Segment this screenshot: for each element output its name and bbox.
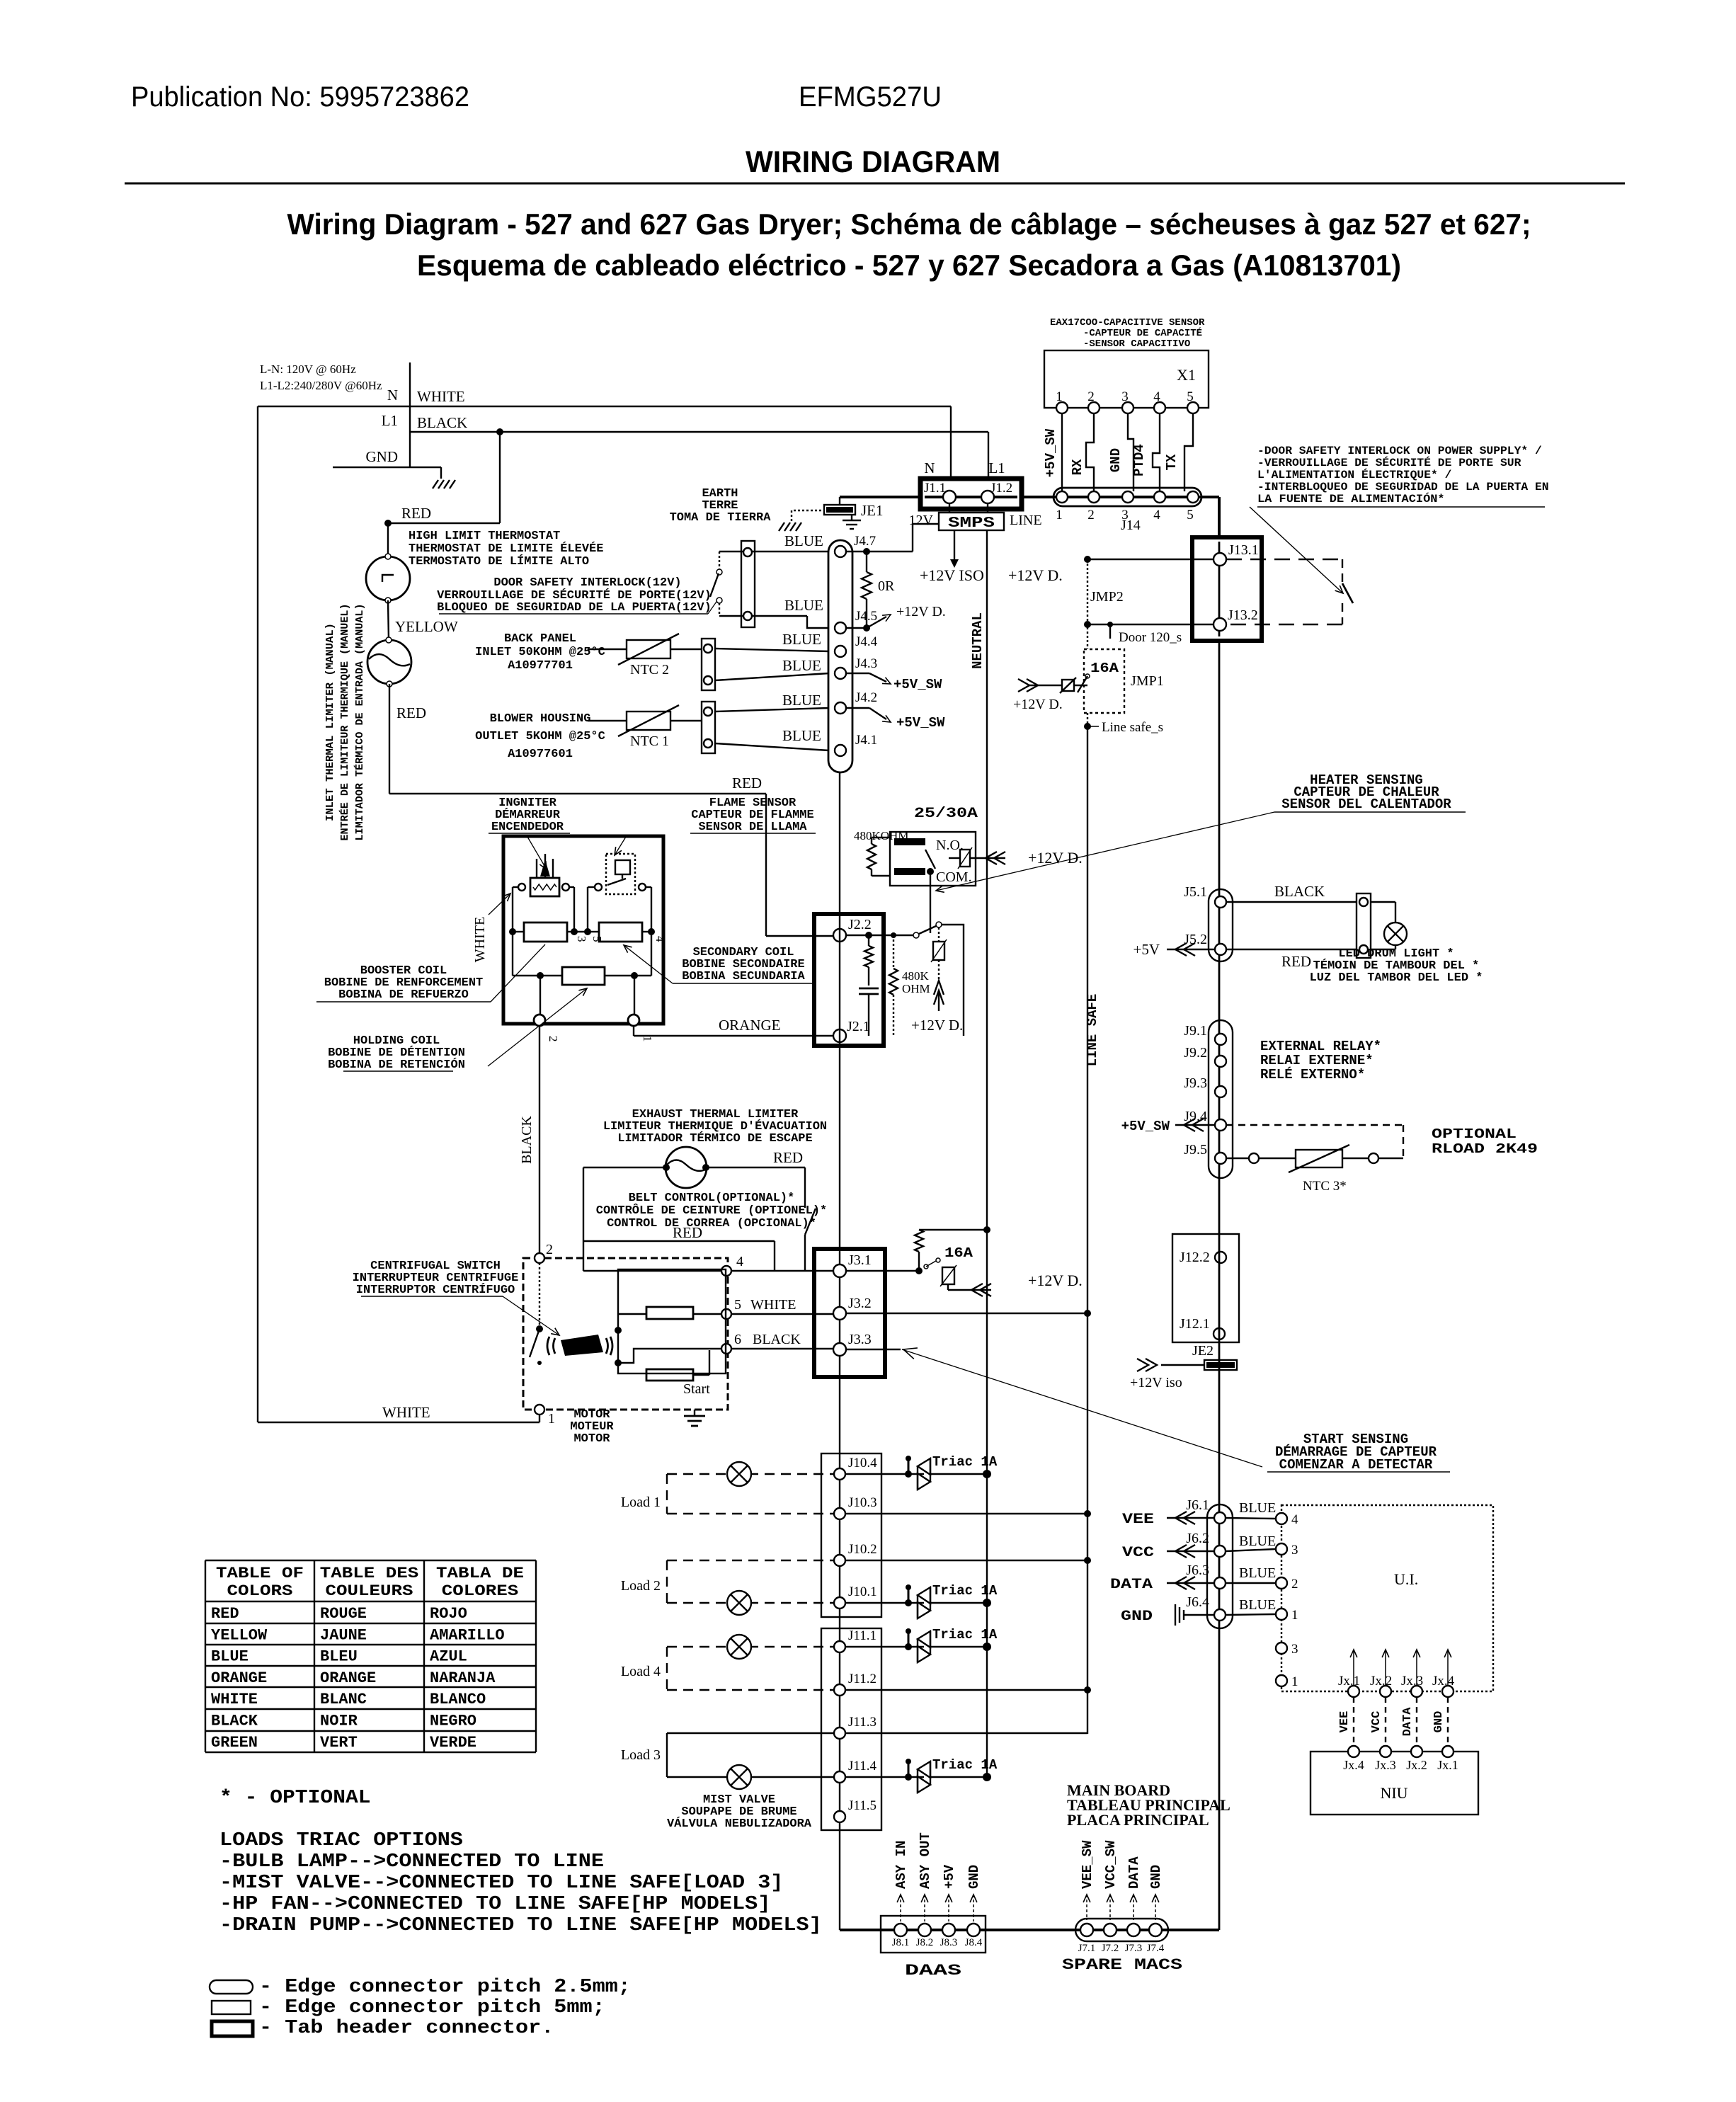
svg-text:NIU: NIU [1380, 1784, 1407, 1802]
svg-text:3: 3 [1291, 1543, 1298, 1558]
svg-text:WIRING DIAGRAM: WIRING DIAGRAM [746, 145, 1000, 179]
svg-text:NOIR: NOIR [320, 1713, 358, 1730]
relay COM contact [894, 868, 925, 875]
flame sensor element [606, 854, 635, 894]
svg-text:1: 1 [548, 1411, 555, 1427]
svg-text:BLACK: BLACK [417, 414, 467, 431]
svg-text:Line safe_s: Line safe_s [1102, 720, 1163, 735]
NTC1 edge connector [702, 702, 715, 753]
svg-text:2: 2 [1291, 1577, 1298, 1592]
svg-text:COLORES: COLORES [442, 1582, 519, 1600]
svg-text:+12V D.: +12V D. [1008, 566, 1063, 584]
svg-text:1: 1 [1056, 508, 1063, 522]
svg-text:Load 2: Load 2 [621, 1578, 661, 1594]
svg-text:BLUE: BLUE [1239, 1500, 1276, 1516]
svg-text:J8.2: J8.2 [916, 1937, 934, 1948]
wire +5V arrow at J5.2 [1167, 949, 1215, 950]
svg-text:PLACA PRINCIPAL: PLACA PRINCIPAL [1067, 1811, 1209, 1829]
svg-text:BLUE: BLUE [784, 597, 823, 614]
net Door 120_s tap [1107, 622, 1113, 627]
svg-text:BLUE: BLUE [1239, 1533, 1276, 1549]
start winding [646, 1369, 693, 1381]
thermistor NTC3 [1226, 1158, 1249, 1159]
fuse 16A JMP1 box [1084, 649, 1124, 713]
fuse body J3.1 [942, 1267, 954, 1284]
title underline rule [125, 183, 1625, 185]
svg-text:4: 4 [653, 936, 667, 942]
svg-text:JAUNE: JAUNE [320, 1626, 367, 1644]
svg-text:Jx.2: Jx.2 [1370, 1674, 1392, 1689]
motor pin 1 [535, 1405, 544, 1415]
svg-text:VEE_SW: VEE_SW [1080, 1840, 1095, 1889]
svg-text:VERDE: VERDE [430, 1734, 476, 1752]
svg-text:Jx.4: Jx.4 [1343, 1758, 1364, 1772]
svg-text:Jx.1: Jx.1 [1437, 1758, 1458, 1772]
motor ground [694, 1410, 695, 1416]
svg-text:BLOWER HOUSING: BLOWER HOUSING [490, 712, 591, 726]
svg-text:J4.3: J4.3 [855, 656, 877, 671]
svg-text:VCC_SW: VCC_SW [1103, 1840, 1119, 1889]
svg-text:CONTROL DE CORREA (OPCIONAL)*: CONTROL DE CORREA (OPCIONAL)* [607, 1217, 816, 1230]
UI left pins [1276, 1513, 1287, 1524]
svg-text:Publication No: 5995723862: Publication No: 5995723862 [131, 81, 469, 113]
igniter pointer [527, 837, 547, 869]
resistor 0R [863, 548, 870, 555]
relay 25/30A box [890, 832, 976, 886]
svg-text:J3.1: J3.1 [848, 1252, 872, 1268]
wire J1 to J14 line bus [1022, 496, 1219, 498]
svg-text:GND: GND [1121, 1609, 1153, 1625]
wire BLUE interlock lower [719, 615, 807, 617]
door interlock edge connector [741, 541, 755, 627]
svg-text:J10.2: J10.2 [848, 1542, 877, 1557]
wire earth to JE1 [792, 510, 824, 521]
svg-text:NEGRO: NEGRO [430, 1713, 476, 1730]
wire ORANGE assembly to J2.1 [633, 1026, 634, 1036]
svg-text:GND: GND [1108, 448, 1124, 472]
wire J3.2 to line safe [846, 1313, 1087, 1314]
main winding [646, 1307, 693, 1319]
svg-text:YELLOW: YELLOW [395, 618, 458, 635]
svg-text:TÉMOIN DE TAMBOUR DEL *: TÉMOIN DE TAMBOUR DEL * [1313, 959, 1480, 973]
svg-text:NTC 2: NTC 2 [630, 662, 669, 678]
svg-text:L1-L2:240/280V @60Hz: L1-L2:240/280V @60Hz [260, 379, 382, 392]
motor winding block [618, 1269, 726, 1373]
svg-text:2: 2 [1087, 508, 1095, 522]
wire red to J3.1 [583, 1270, 833, 1272]
fuse 16A at J3.1 [846, 1270, 919, 1272]
svg-text:SENSOR DE LLAMA: SENSOR DE LLAMA [698, 821, 807, 834]
svg-text:BOBINA DE RETENCIÓN: BOBINA DE RETENCIÓN [328, 1058, 465, 1072]
svg-text:-INTERBLOQUEO DE SEGURIDAD DE: -INTERBLOQUEO DE SEGURIDAD DE LA PUERTA … [1257, 481, 1549, 493]
svg-text:AZUL: AZUL [430, 1648, 467, 1666]
wire BLUE NTC1 to J4.1 [715, 743, 829, 750]
svg-text:TX: TX [1164, 454, 1180, 470]
motor pin 2 [535, 1253, 544, 1263]
svg-text:16A: 16A [944, 1245, 973, 1261]
svg-text:J8.4: J8.4 [965, 1937, 983, 1948]
wire BLUE NTC2 to J4.4 [715, 649, 829, 651]
svg-text:+12V D.: +12V D. [911, 1017, 963, 1034]
wire J13.1 to line-safe node [1084, 556, 1091, 563]
svg-text:J4.1: J4.1 [855, 733, 877, 748]
svg-text:Load 1: Load 1 [621, 1495, 661, 1510]
load 2 lamp loop [667, 1560, 833, 1561]
svg-text:BLUE: BLUE [1239, 1597, 1276, 1613]
connector SPARE MACS [1075, 1919, 1168, 1941]
wires X1 to J14 [1061, 413, 1063, 491]
svg-text:Jx.4: Jx.4 [1432, 1674, 1455, 1689]
wire LINE SAFE vertical bus [1087, 726, 1088, 1734]
wires UI to NIU [1353, 1697, 1354, 1746]
exhaust thermal limiter [666, 1147, 707, 1188]
thermistor NTC2 [627, 640, 670, 658]
triac J10.4 [846, 1473, 924, 1475]
svg-text:- Tab header connector.: - Tab header connector. [259, 2018, 554, 2039]
igniter lead left [518, 884, 525, 891]
svg-text:INLET THERMAL LIMITER (MANUAL): INLET THERMAL LIMITER (MANUAL) [324, 623, 336, 821]
svg-text:Wiring Diagram - 527 and 627 G: Wiring Diagram - 527 and 627 Gas Dryer; … [287, 207, 1531, 241]
svg-text:LINE: LINE [1010, 513, 1042, 528]
relay blade [925, 850, 935, 869]
svg-text:DATA: DATA [1401, 1707, 1415, 1737]
svg-text:J11.2: J11.2 [848, 1672, 876, 1686]
svg-text:L'ALIMENTATION ÉLECTRIQUE* /: L'ALIMENTATION ÉLECTRIQUE* / [1257, 468, 1451, 481]
triac J11.1 [846, 1646, 924, 1647]
wire black to red drop [499, 432, 501, 523]
svg-text:PTD4: PTD4 [1131, 444, 1147, 476]
svg-text:ASY IN: ASY IN [893, 1841, 909, 1889]
connector J11 [821, 1628, 881, 1830]
ground symbol power entry [433, 480, 438, 489]
wire J4.2 +5V_SW arrow [846, 707, 869, 709]
svg-text:RLOAD 2K49: RLOAD 2K49 [1432, 1141, 1538, 1157]
wire thermostat to limiter [388, 600, 389, 640]
svg-text:16A: 16A [1090, 661, 1119, 676]
wire spark loop [942, 925, 964, 1036]
svg-text:ENCENDEDOR: ENCENDEDOR [491, 821, 564, 834]
motor internal switch [539, 1263, 540, 1327]
high limit thermostat [366, 556, 410, 600]
svg-text:J10.4: J10.4 [848, 1456, 877, 1470]
J2 internal RC [846, 935, 913, 936]
wire BLUE NTC1 to J4.2 [715, 708, 829, 712]
svg-text:RED: RED [673, 1224, 702, 1241]
svg-text:J11.4: J11.4 [848, 1759, 876, 1773]
inlet thermal limiter (manual) [367, 640, 411, 684]
svg-text:BELT CONTROL(OPTIONAL)*: BELT CONTROL(OPTIONAL)* [629, 1192, 795, 1205]
svg-text:HIGH LIMIT THERMOSTAT: HIGH LIMIT THERMOSTAT [409, 530, 560, 543]
holding coil [513, 975, 562, 976]
belt control switch [804, 1167, 806, 1208]
NTC2 edge connector [702, 639, 715, 690]
start sensing pointer [902, 1349, 1262, 1467]
svg-text:Jx.2: Jx.2 [1406, 1758, 1427, 1772]
svg-text:J8.3: J8.3 [940, 1937, 958, 1948]
triac J10.1 [846, 1602, 924, 1604]
flame sensor leads [595, 884, 602, 891]
svg-text:VERROUILLAGE DE SÉCURITÉ DE PO: VERROUILLAGE DE SÉCURITÉ DE PORTE(12V) [437, 588, 712, 602]
wire relay COM to J2.2 switch [930, 872, 931, 933]
svg-text:J10.1: J10.1 [848, 1584, 877, 1599]
svg-text:GND: GND [366, 448, 399, 465]
wire WHITE to motor pin1 [258, 1422, 539, 1423]
svg-text:J8.1: J8.1 [892, 1937, 910, 1948]
wire J10.2 to line safe [846, 1560, 1087, 1561]
motor pin 5 [721, 1309, 731, 1319]
svg-text:JMP1: JMP1 [1131, 673, 1164, 689]
wires J6 to UI BLUE [1226, 1518, 1276, 1519]
wire J10.3 to line safe [846, 1513, 1087, 1514]
svg-text:Load 3: Load 3 [621, 1747, 661, 1763]
connector J4 [828, 540, 852, 772]
wire BLACK drum light [1226, 901, 1357, 903]
svg-text:J5.2: J5.2 [1184, 932, 1207, 947]
svg-text:J11.3: J11.3 [848, 1715, 876, 1730]
svg-text:WHITE: WHITE [472, 917, 488, 962]
svg-text:BLUE: BLUE [782, 692, 821, 709]
relay N.O. contact [894, 838, 925, 845]
svg-text:SENSOR DEL CALENTADOR: SENSOR DEL CALENTADOR [1281, 796, 1451, 812]
spark gap igniter circuit [938, 927, 940, 942]
svg-text:2: 2 [546, 1242, 553, 1257]
power entry stub [409, 362, 411, 467]
svg-text:GND: GND [966, 1865, 982, 1889]
svg-text:DATA: DATA [1126, 1856, 1142, 1889]
wire NEUTRAL vertical bus [986, 530, 988, 1777]
svg-text:Triac 1A: Triac 1A [932, 1583, 998, 1599]
svg-text:+12V ISO: +12V ISO [920, 566, 984, 584]
svg-text:RED: RED [1281, 953, 1311, 970]
svg-text:J13.1: J13.1 [1228, 542, 1259, 558]
power supply SMPS [949, 503, 950, 513]
svg-text:+12V D.: +12V D. [1013, 697, 1063, 712]
igniter assembly box [503, 836, 663, 1024]
legend tab header connector [212, 2021, 253, 2036]
wire motor 6 internal [618, 1349, 721, 1363]
svg-text:RED: RED [211, 1605, 239, 1623]
relay coil [871, 838, 872, 844]
svg-text:TABLA DE: TABLA DE [436, 1565, 524, 1582]
svg-text:J3.3: J3.3 [848, 1332, 872, 1347]
connector J12 [1172, 1234, 1239, 1342]
svg-text:-DRAIN PUMP-->CONNECTED TO LIN: -DRAIN PUMP-->CONNECTED TO LINE SAFE[HP … [219, 1915, 822, 1936]
svg-text:J9.1: J9.1 [1184, 1023, 1207, 1039]
wire J11.3 to line safe [846, 1732, 1087, 1734]
svg-text:5: 5 [1187, 508, 1194, 522]
svg-text:L-N: 120V @ 60Hz: L-N: 120V @ 60Hz [260, 362, 356, 376]
svg-text:JE2: JE2 [1192, 1343, 1214, 1359]
svg-text:BLUE: BLUE [782, 631, 821, 648]
fuse on +12V D. feed [1028, 685, 1062, 686]
connector J5 [1209, 889, 1233, 961]
svg-text:J6.4: J6.4 [1186, 1594, 1209, 1610]
svg-text:SPARE MACS: SPARE MACS [1062, 1956, 1182, 1974]
svg-text:WHITE: WHITE [750, 1297, 796, 1313]
wire NTC1 leads [588, 720, 627, 721]
svg-text:LA FUENTE DE ALIMENTACIÓN*: LA FUENTE DE ALIMENTACIÓN* [1257, 492, 1445, 505]
svg-text:J6.1: J6.1 [1186, 1497, 1209, 1513]
heater sensing pointer [936, 812, 1274, 891]
door switch on power supply (dashed) [1226, 559, 1342, 560]
svg-text:VÁLVULA NEBULIZADORA: VÁLVULA NEBULIZADORA [667, 1817, 812, 1831]
connector J3 tab header [814, 1249, 885, 1377]
bottom bus [840, 1929, 1219, 1931]
svg-text:-DOOR SAFETY INTERLOCK ON POWE: -DOOR SAFETY INTERLOCK ON POWER SUPPLY* … [1257, 445, 1542, 457]
connector DAAS [881, 1916, 986, 1953]
svg-text:BLANC: BLANC [320, 1691, 367, 1708]
svg-text:+5V_SW: +5V_SW [1121, 1119, 1170, 1134]
svg-text:BOBINA DE REFUERZO: BOBINA DE REFUERZO [338, 988, 469, 1002]
svg-text:Jx.1: Jx.1 [1338, 1674, 1360, 1689]
svg-text:EXTERNAL RELAY*: EXTERNAL RELAY* [1260, 1039, 1381, 1054]
svg-text:+12V D.: +12V D. [896, 604, 946, 619]
wire J3.3 start sense [846, 1349, 901, 1350]
connector J2 tab header [814, 914, 884, 1046]
svg-text:5: 5 [734, 1297, 741, 1313]
wire +12V iso arrow [1146, 1359, 1157, 1371]
svg-text:RED: RED [401, 505, 431, 522]
connector J14 [1053, 488, 1201, 506]
svg-text:BLACK: BLACK [1274, 883, 1325, 900]
legend edge connector 5mm [212, 2001, 251, 2014]
svg-text:1: 1 [641, 1036, 654, 1042]
NIU box [1310, 1752, 1478, 1815]
svg-text:TABLE DES: TABLE DES [320, 1565, 419, 1582]
net VEE [1167, 1517, 1214, 1519]
svg-text:- Edge connector pitch 5mm;: - Edge connector pitch 5mm; [259, 1997, 605, 2018]
svg-text:TERMOSTATO DE LÍMITE ALTO: TERMOSTATO DE LÍMITE ALTO [409, 554, 589, 569]
svg-text:-MIST VALVE-->CONNECTED TO LIN: -MIST VALVE-->CONNECTED TO LINE SAFE[LOA… [219, 1873, 783, 1894]
svg-text:J4.4: J4.4 [855, 634, 878, 649]
svg-text:NTC 1: NTC 1 [630, 733, 669, 749]
svg-text:LIMITADOR TÉRMICO DE ESCAPE: LIMITADOR TÉRMICO DE ESCAPE [617, 1131, 812, 1146]
connector J13 tab header [1192, 537, 1262, 641]
svg-text:BOBINE DE DÉTENTION: BOBINE DE DÉTENTION [328, 1046, 465, 1060]
svg-text:2: 2 [547, 1036, 560, 1042]
svg-text:-HP FAN-->CONNECTED TO LINE SA: -HP FAN-->CONNECTED TO LINE SAFE[HP MODE… [219, 1894, 770, 1915]
svg-text:J12.2: J12.2 [1180, 1250, 1210, 1265]
svg-text:Esquema de cableado eléctrico: Esquema de cableado eléctrico - 527 y 62… [417, 249, 1401, 282]
svg-text:1: 1 [1056, 389, 1063, 404]
connector X1 capacitive sensor [1044, 350, 1209, 408]
svg-text:ENTRÉE DE LIMITEUR THERMIQUE (: ENTRÉE DE LIMITEUR THERMIQUE (MANUEL) [338, 604, 351, 841]
svg-text:+5V_SW: +5V_SW [896, 715, 945, 731]
svg-text:J6.2: J6.2 [1186, 1531, 1209, 1546]
svg-text:RX: RX [1070, 459, 1085, 475]
wire jmp1 to line safe node [1087, 713, 1088, 726]
svg-text:NARANJA: NARANJA [430, 1669, 496, 1687]
wire BLACK assembly to motor [539, 1026, 540, 1258]
resistor 480K OHM [893, 935, 894, 969]
svg-text:4: 4 [1153, 508, 1160, 522]
svg-text:BLUE: BLUE [211, 1648, 249, 1666]
connector J6 [1207, 1504, 1233, 1628]
svg-text:A10977601: A10977601 [508, 748, 573, 761]
svg-text:GND: GND [1148, 1865, 1164, 1889]
svg-text:J1.2: J1.2 [990, 481, 1012, 496]
svg-text:COM.: COM. [936, 869, 972, 885]
svg-text:VCC: VCC [1122, 1545, 1154, 1561]
wire J4.5 +12V D. arrow [846, 627, 867, 629]
svg-text:1: 1 [1291, 1608, 1298, 1623]
svg-text:480K: 480K [902, 969, 930, 983]
svg-text:1: 1 [1291, 1674, 1298, 1689]
wire NTC2 leads [588, 649, 627, 650]
svg-text:RED: RED [732, 775, 762, 792]
connector JE1 [824, 505, 855, 515]
svg-text:Jx.3: Jx.3 [1375, 1758, 1396, 1772]
svg-text:OPTIONAL: OPTIONAL [1432, 1126, 1517, 1142]
svg-text:* - OPTIONAL: * - OPTIONAL [219, 1788, 371, 1809]
wire RED drum light [1226, 949, 1357, 950]
motor pin 6 [721, 1344, 731, 1354]
svg-text:COMENZAR A DETECTAR: COMENZAR A DETECTAR [1279, 1457, 1433, 1473]
svg-text:OHM: OHM [902, 982, 930, 995]
earth ground symbol [779, 522, 784, 531]
wire +5V_SW at J9.4 [1175, 1124, 1215, 1126]
svg-text:VEE: VEE [1338, 1711, 1352, 1733]
UI bottom pins Jx [1348, 1686, 1359, 1697]
svg-text:BLEU: BLEU [320, 1648, 358, 1666]
svg-text:-BULB LAMP-->CONNECTED TO LINE: -BULB LAMP-->CONNECTED TO LINE [219, 1851, 604, 1873]
svg-text:4: 4 [1153, 389, 1160, 404]
svg-text:+12V iso: +12V iso [1130, 1375, 1182, 1390]
igniter lead right [562, 884, 569, 891]
motor pin 4 [721, 1266, 731, 1276]
svg-text:U.I.: U.I. [1394, 1570, 1418, 1588]
svg-text:BLUE: BLUE [1239, 1565, 1276, 1581]
svg-text:J7.2: J7.2 [1102, 1943, 1119, 1954]
wire BLUE interlock upper [719, 551, 829, 552]
svg-text:INLET 50KOHM @25°C: INLET 50KOHM @25°C [475, 646, 605, 659]
svg-text:RELAI EXTERNE*: RELAI EXTERNE* [1260, 1053, 1374, 1068]
svg-text:COLORS: COLORS [227, 1582, 293, 1600]
svg-text:MOTOR: MOTOR [573, 1432, 610, 1446]
net DATA [1167, 1582, 1214, 1584]
svg-text:A10977701: A10977701 [508, 659, 573, 673]
svg-text:N: N [924, 459, 935, 476]
svg-text:5: 5 [1187, 389, 1194, 404]
svg-text:VCC: VCC [1370, 1711, 1383, 1733]
svg-text:RELÉ EXTERNO*: RELÉ EXTERNO* [1260, 1067, 1365, 1083]
svg-text:0R: 0R [878, 578, 895, 594]
svg-text:CONTRÔLE DE CEINTURE (OPTIONEL: CONTRÔLE DE CEINTURE (OPTIONEL)* [596, 1204, 827, 1218]
door interlock switch [719, 552, 720, 569]
svg-text:Door 120_s: Door 120_s [1119, 630, 1182, 645]
svg-text:LINE SAFE: LINE SAFE [1085, 994, 1100, 1067]
wire main vertical bus through J2 [839, 772, 840, 1930]
svg-text:J1.1: J1.1 [924, 481, 946, 496]
svg-text:BLACK: BLACK [211, 1713, 258, 1730]
svg-text:J3.2: J3.2 [848, 1296, 872, 1311]
svg-text:J9.5: J9.5 [1184, 1142, 1207, 1158]
thermistor NTC1 [627, 712, 670, 730]
svg-text:DÉMARREUR: DÉMARREUR [495, 808, 561, 822]
connector J1 tab header [920, 479, 1022, 509]
svg-text:L1: L1 [988, 459, 1005, 476]
svg-text:L1: L1 [382, 412, 398, 429]
relay aux fuse [960, 850, 970, 867]
svg-text:ROJO: ROJO [430, 1605, 467, 1623]
connector J10 [821, 1453, 881, 1617]
svg-text:J2.2: J2.2 [848, 917, 872, 932]
wire JE1 to line bus [839, 497, 840, 505]
left vertical bus (white) [257, 406, 258, 1422]
svg-text:RED: RED [773, 1149, 803, 1166]
wire J4.7 to SMPS 12V [867, 551, 913, 552]
svg-text:GND: GND [1432, 1711, 1446, 1733]
